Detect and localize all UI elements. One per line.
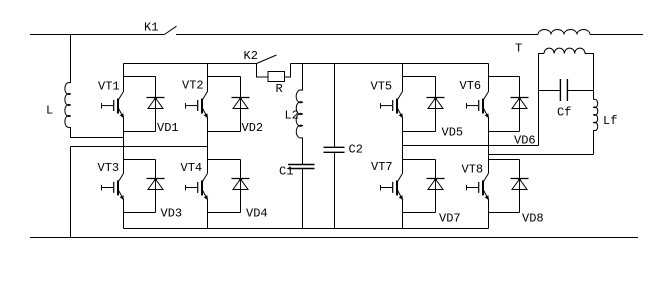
svg-text:R: R (276, 82, 283, 96)
svg-text:Lf: Lf (603, 114, 617, 128)
svg-text:VT5: VT5 (371, 80, 393, 94)
svg-text:L: L (46, 104, 53, 118)
svg-text:VT2: VT2 (182, 79, 204, 93)
svg-text:VD1: VD1 (157, 121, 179, 135)
svg-text:K2: K2 (244, 49, 258, 63)
svg-text:VT1: VT1 (98, 80, 120, 94)
svg-text:VD3: VD3 (161, 207, 183, 221)
svg-text:C2: C2 (349, 143, 363, 157)
svg-text:VD7: VD7 (439, 212, 461, 226)
svg-text:VT6: VT6 (460, 79, 482, 93)
svg-text:Cf: Cf (557, 106, 571, 120)
svg-text:VD8: VD8 (522, 212, 544, 226)
svg-text:T: T (515, 42, 522, 56)
svg-text:VT3: VT3 (98, 161, 120, 175)
svg-text:VD2: VD2 (242, 121, 264, 135)
svg-text:VD6: VD6 (514, 134, 536, 148)
svg-text:VT8: VT8 (462, 163, 484, 177)
svg-text:L2: L2 (285, 109, 299, 123)
svg-text:K1: K1 (144, 21, 158, 35)
svg-text:VT4: VT4 (181, 161, 203, 175)
svg-text:VD4: VD4 (246, 207, 268, 221)
svg-text:VD5: VD5 (442, 126, 464, 140)
svg-text:C1: C1 (279, 165, 293, 179)
svg-text:VT7: VT7 (371, 160, 393, 174)
